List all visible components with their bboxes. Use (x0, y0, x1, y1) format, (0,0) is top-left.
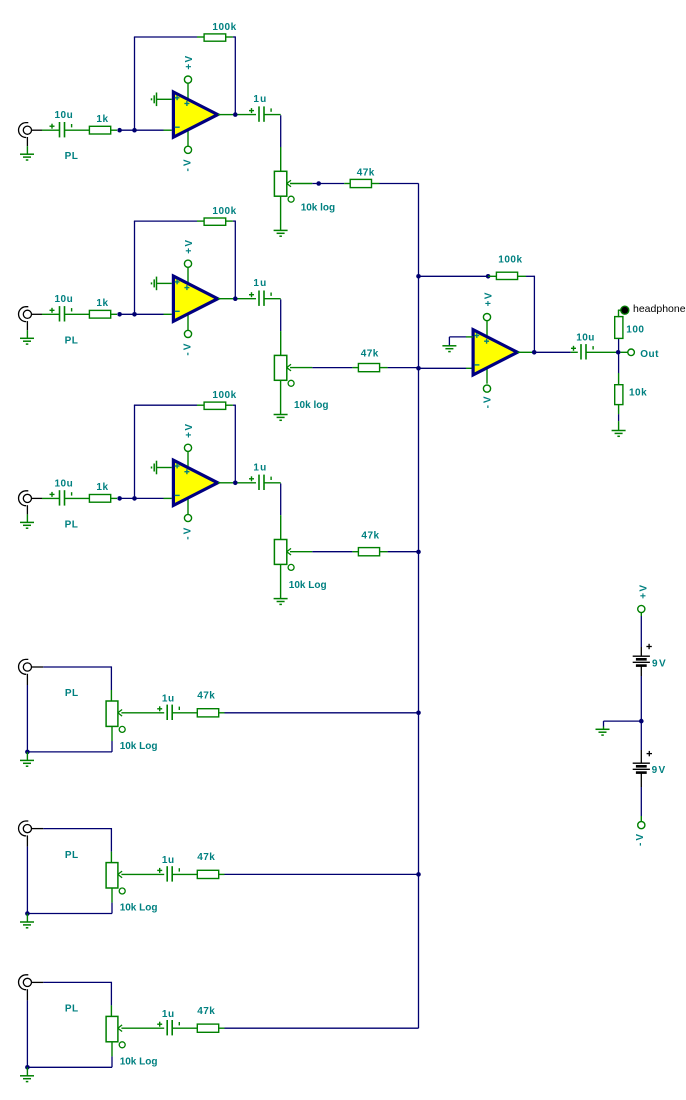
wiper wire VR4 to C8 1u (121, 712, 164, 714)
wire bus to inverting input U4 (419, 367, 467, 369)
wire to C 1u (channel 3) (238, 482, 257, 484)
capacitor C4 1u (channel 2) (249, 291, 271, 306)
resistor 47k (channel 1) (350, 179, 371, 187)
ground at supply mid node (596, 729, 610, 735)
output node dot U1 (233, 112, 238, 117)
svg-text:-V: -V (482, 394, 493, 408)
wire C1 to R 1k (65, 129, 90, 131)
wire B1 to mid node (640, 666, 642, 676)
+V supply pin wire U2 (187, 267, 189, 287)
svg-text:1u: 1u (162, 694, 175, 705)
wire to C 1u (channel 2) (238, 298, 257, 300)
node dot at 1k output (117, 496, 122, 501)
resistor 1k (channel 3) (89, 495, 110, 503)
node dot at 1k output (117, 128, 122, 133)
output node dot U3 (233, 481, 238, 486)
svg-text:+V: +V (638, 584, 649, 599)
resistor 47k (channel 6) (197, 1024, 218, 1032)
svg-text:headphone: headphone (633, 303, 686, 315)
-V supply terminal circle (638, 822, 645, 829)
+V terminal circle U1 (184, 76, 191, 83)
capacitor C7 10u output (571, 344, 593, 359)
capacitor C10 1u (channel 6) (157, 1020, 179, 1035)
svg-text:47k: 47k (361, 530, 379, 541)
svg-text:100k: 100k (212, 390, 236, 401)
wire 47k to mix bus (channel 5) (219, 873, 225, 875)
svg-text:+V: +V (184, 239, 195, 254)
node dot before 100k feedback (486, 274, 491, 279)
op-amp U2 (173, 276, 217, 321)
pot VR6 bottom wire (111, 1042, 113, 1057)
svg-text:47k: 47k (197, 1006, 215, 1017)
ground below VR3 (274, 599, 288, 605)
wire J2 to C3 (32, 313, 43, 315)
ground below VR1 (274, 230, 288, 236)
wire mid node to battery B2 (640, 723, 642, 750)
resistor 47k (channel 4) (197, 709, 218, 717)
resistor 47k (channel 5) (197, 870, 218, 878)
feedback tap node dot on bus (416, 274, 421, 279)
capacitor C9 1u (channel 5) (157, 866, 179, 881)
ground below J4 (20, 760, 34, 766)
wire 10k to ground (618, 405, 620, 415)
resistor 100k feedback (channel 2) (204, 218, 226, 225)
svg-text:10u: 10u (55, 110, 74, 121)
wire 47k to mix bus (channel 2) (380, 367, 388, 369)
pot VR2 bottom wire to ground (280, 380, 282, 414)
wire + input to ground U3 (157, 467, 172, 469)
wire + input U4 to ground (466, 336, 473, 338)
svg-text:10k: 10k (629, 388, 647, 399)
input jack J4 (19, 659, 32, 674)
feedback wire down to output (226, 404, 233, 406)
wiper wire VR6 to C10 1u (121, 1027, 164, 1029)
resistor R 10k output load (615, 385, 623, 405)
-V terminal circle U1 (184, 146, 191, 153)
sleeve ground node dot (25, 911, 30, 916)
pot VR4 bottom wire (111, 726, 113, 741)
wire down to pot VR4 (110, 666, 112, 690)
svg-text:10k log: 10k log (294, 400, 328, 411)
-V supply pin wire U2 (187, 311, 189, 330)
wire J6 tip to pot top corner (32, 981, 44, 983)
svg-text:Out: Out (640, 349, 659, 360)
resistor 47k (channel 3) (358, 548, 379, 556)
svg-text:47k: 47k (197, 852, 215, 863)
-V terminal circle U2 (184, 330, 191, 337)
output wire U3 (218, 482, 233, 484)
svg-text:PL: PL (65, 688, 79, 699)
wire down to pot VR6 (110, 982, 112, 1006)
svg-text:1k: 1k (96, 298, 108, 309)
svg-text:47k: 47k (357, 167, 375, 178)
resistor 1k (channel 2) (89, 310, 110, 318)
ground at + input U4 (442, 346, 456, 352)
-V terminal circle U4 (483, 385, 490, 392)
svg-text:1k: 1k (96, 482, 108, 493)
potentiometer VR4 10k Log (106, 701, 125, 732)
wiper wire VR2 to 47k (290, 367, 312, 369)
ground below 10k (612, 431, 626, 437)
wiper wire VR1 to 47k (290, 183, 312, 185)
+V supply pin wire U4 (486, 321, 488, 341)
bus node dot channel 2 tap (416, 366, 421, 371)
ground below J6 (20, 1076, 34, 1082)
bus node dot channel 4 tap (416, 711, 421, 716)
svg-text:1u: 1u (253, 278, 267, 289)
resistor 1k (channel 1) (89, 126, 110, 134)
svg-text:100k: 100k (212, 206, 236, 217)
wire + input to ground U2 (157, 282, 172, 284)
capacitor C8 1u (channel 4) (157, 705, 179, 720)
svg-text:100k: 100k (212, 22, 236, 33)
svg-text:PL: PL (65, 151, 79, 162)
wire J5 tip to pot top corner (32, 828, 44, 830)
op-amp U4 summing (473, 330, 517, 375)
+V supply terminal circle (638, 605, 645, 612)
svg-text:9V: 9V (652, 765, 667, 776)
bottom return wire to jack sleeve (27, 913, 112, 915)
resistor 100k feedback U4 (496, 272, 517, 279)
-V terminal circle U3 (184, 514, 191, 521)
svg-text:100k: 100k (498, 254, 522, 265)
sleeve ground node dot (25, 1065, 30, 1070)
resistor 100k feedback (channel 1) (204, 34, 226, 41)
wire 100 to headphone terminal (618, 310, 620, 317)
jack J6 sleeve wire down (26, 989, 28, 1000)
wiper wire VR5 to C9 1u (121, 873, 164, 875)
+V supply pin wire U1 (187, 83, 189, 103)
svg-text:10k log: 10k log (301, 202, 335, 213)
bus node dot channel 5 tap (416, 872, 421, 877)
+V terminal circle U2 (184, 260, 191, 267)
svg-text:10k Log: 10k Log (120, 1057, 158, 1068)
node dot at feedback junction (132, 128, 137, 133)
ground below J2 (20, 338, 34, 344)
svg-text:10u: 10u (576, 333, 595, 344)
feedback wire down to output (226, 36, 233, 38)
jack J4 sleeve wire down (26, 674, 28, 685)
potentiometer VR6 10k Log (106, 1016, 125, 1047)
svg-text:10k Log: 10k Log (120, 741, 158, 752)
wire node to ground (26, 914, 28, 923)
capacitor C2 1u (channel 1) (249, 106, 271, 121)
input jack J3 (19, 491, 32, 506)
mix bus vertical wire (418, 183, 420, 1028)
wire C5 to R 1k (65, 497, 90, 499)
bottom return wire to jack sleeve (27, 751, 112, 753)
ground below J5 (20, 922, 34, 928)
wire J1 sleeve to ground (26, 137, 28, 146)
resistor 100k feedback (channel 3) (204, 402, 226, 409)
node dot at 1k output (117, 312, 122, 317)
wire J4 tip to pot top corner (32, 666, 44, 668)
svg-text:9V: 9V (652, 659, 667, 670)
svg-text:-V: -V (635, 832, 646, 846)
input jack J6 (19, 975, 32, 990)
ground below J1 (20, 154, 34, 160)
input jack J2 (19, 307, 32, 322)
wire C3 to R 1k (65, 313, 90, 315)
ground below J3 (20, 522, 34, 528)
svg-text:1u: 1u (253, 462, 267, 473)
out node dot (616, 350, 621, 355)
ground at + input U3 (152, 461, 157, 475)
wire J1 to C1 (32, 129, 43, 131)
node dot at feedback junction (132, 496, 137, 501)
wire out node up to 100 resistor (618, 338, 620, 350)
svg-text:47k: 47k (361, 349, 379, 360)
svg-text:+V: +V (483, 291, 494, 306)
wire 47k to mix bus (channel 3) (380, 551, 388, 553)
wire C 1u to pot VR2 (264, 298, 280, 300)
wire to C 1u (channel 1) (238, 114, 257, 116)
wire +V to battery B1 (640, 613, 642, 616)
wire 47k to mix bus (channel 1) (372, 183, 380, 185)
wire mid node to ground (604, 720, 642, 722)
wire C8 to 47k (173, 712, 198, 714)
wire out node down to 10k (618, 354, 620, 373)
wire C9 to 47k (173, 873, 198, 875)
resistor R 100 (615, 317, 623, 339)
wire C 1u to pot VR3 (264, 482, 280, 484)
pot VR5 bottom wire (111, 888, 113, 903)
capacitor C6 1u (channel 3) (249, 475, 271, 490)
potentiometer VR2 10k log (274, 355, 294, 386)
feedback wire up from input node (134, 405, 136, 496)
headphone terminal (621, 306, 629, 314)
wire down to pot VR5 (110, 828, 112, 852)
jack J5 sleeve wire down (26, 835, 28, 846)
bus node dot channel 3 tap (416, 550, 421, 555)
wire 1k to inverting input U1 (111, 129, 117, 131)
wire J2 sleeve to ground (26, 321, 28, 330)
svg-text:1u: 1u (162, 855, 175, 866)
battery B2 9V (633, 763, 650, 772)
output wire U2 (218, 298, 233, 300)
feedback wire up from input node (134, 221, 136, 312)
ground below VR2 (274, 415, 288, 421)
output wire U1 (218, 114, 233, 116)
input jack J5 (19, 821, 32, 836)
-V supply pin wire U4 (486, 364, 488, 383)
feedback wire up from input node (134, 37, 136, 128)
svg-text:10k Log: 10k Log (289, 580, 327, 591)
battery B1 9V (633, 656, 650, 665)
capacitor C3 10u (50, 306, 72, 321)
svg-text:PL: PL (65, 335, 79, 346)
+V terminal circle U4 (483, 314, 490, 321)
-V supply pin wire U3 (187, 495, 189, 514)
svg-text:PL: PL (65, 1004, 79, 1015)
wire C 1u to pot VR1 (264, 114, 280, 116)
potentiometer VR1 10k log (274, 171, 294, 202)
wire to output cap C7 (534, 351, 571, 353)
-V supply pin wire U1 (187, 127, 189, 146)
svg-text:1u: 1u (162, 1009, 175, 1020)
svg-text:+V: +V (184, 423, 195, 438)
mid supply node dot (639, 719, 644, 724)
capacitor C1 10u (50, 122, 72, 137)
wire C10 to 47k (173, 1027, 198, 1029)
ground at + input U2 (152, 277, 157, 291)
potentiometer VR5 10k Log (106, 863, 125, 894)
Out terminal circle (628, 349, 635, 356)
svg-text:1u: 1u (253, 94, 267, 105)
svg-text:-V: -V (182, 342, 193, 356)
feedback wire down to output U4 (518, 275, 526, 277)
svg-text:100: 100 (626, 324, 644, 335)
wire J3 sleeve to ground (26, 505, 28, 514)
capacitor C5 10u (50, 490, 72, 505)
wire + input to ground U1 (157, 98, 172, 100)
resistor 47k (channel 2) (358, 364, 379, 372)
potentiometer VR3 10k log (274, 540, 294, 571)
svg-text:-V: -V (182, 158, 193, 172)
input jack J1 (19, 123, 32, 138)
pot VR3 bottom wire to ground (280, 564, 282, 598)
feedback wire to 100k U4 (419, 275, 487, 277)
svg-text:47k: 47k (197, 691, 215, 702)
node dot on wiper wire channel 1 (316, 181, 321, 186)
svg-text:PL: PL (65, 850, 79, 861)
output node dot U2 (233, 296, 238, 301)
+V supply pin wire U3 (187, 451, 189, 471)
op-amp U1 (173, 92, 217, 137)
wiper wire VR3 to 47k (290, 551, 312, 553)
wire C7 to out node (586, 351, 616, 353)
feedback wire down to output (226, 220, 233, 222)
pot VR1 bottom wire to ground (280, 196, 282, 230)
wire J3 to C5 (32, 497, 43, 499)
ground at + input U1 (152, 93, 157, 107)
node dot at feedback junction (132, 312, 137, 317)
wire node to ground (26, 752, 28, 761)
sleeve ground node dot (25, 750, 30, 755)
+V terminal circle U3 (184, 444, 191, 451)
svg-text:10k Log: 10k Log (120, 903, 158, 914)
svg-text:10u: 10u (55, 294, 74, 305)
svg-text:10u: 10u (55, 478, 74, 489)
output node dot U4 (532, 350, 537, 355)
output wire U4 (517, 351, 532, 353)
wire 1k to inverting input U3 (111, 497, 117, 499)
svg-text:+V: +V (184, 54, 195, 69)
svg-text:PL: PL (65, 519, 79, 530)
wire 47k to mix bus (channel 6) (219, 1027, 225, 1029)
svg-text:1k: 1k (96, 114, 108, 125)
wire node to ground (26, 1067, 28, 1076)
wire out node to Out terminal (621, 351, 629, 353)
bottom return wire to jack sleeve (27, 1066, 112, 1068)
wire B2 to -V terminal (640, 773, 642, 787)
wire 1k to inverting input U2 (111, 313, 117, 315)
svg-text:-V: -V (182, 526, 193, 540)
wire 47k to mix bus (channel 4) (219, 712, 225, 714)
op-amp U3 (173, 460, 217, 505)
